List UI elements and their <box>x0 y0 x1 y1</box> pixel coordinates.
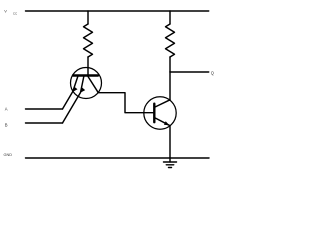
ground symbol bar 3 <box>169 167 172 169</box>
resistor R1 <box>84 24 93 57</box>
ground symbol stub <box>169 158 171 162</box>
ground symbol bar 1 <box>164 161 177 163</box>
svg-text:B: B <box>5 123 8 128</box>
transistor Q1 emitter 2 (input B) <box>63 77 84 124</box>
transistor Q2 emitter arrow <box>164 121 170 125</box>
wire R2 to output node <box>169 57 171 72</box>
transistor Q1 collector leg <box>88 77 98 93</box>
wire output branch <box>170 71 209 73</box>
transistor Q1 emitter arrow 2 <box>80 88 85 93</box>
wire GND bottom rail <box>26 157 210 159</box>
wire R1 to Q1 base <box>87 57 89 76</box>
wire Q1 collector to Q2 base <box>98 93 153 113</box>
svg-text:CC: CC <box>13 11 18 15</box>
svg-text:GND: GND <box>4 153 13 157</box>
wire Vcc to R1 <box>87 11 89 24</box>
transistor Q1 base bar <box>73 74 98 76</box>
transistor Q1 emitter arrow 1 <box>73 87 78 92</box>
ground symbol bar 2 <box>166 164 173 166</box>
transistor Q1 emitter 1 (input A) <box>63 77 78 110</box>
wire Vcc to R2 <box>169 11 171 24</box>
svg-text:A: A <box>5 107 8 112</box>
transistor Q2 collector leg <box>154 100 170 108</box>
wire input B <box>26 122 63 124</box>
svg-text:V: V <box>4 9 7 14</box>
node output junction / wire to Q2 collector <box>169 72 171 100</box>
transistor Q2 emitter leg <box>154 118 169 126</box>
wire Vcc top rail <box>26 10 209 12</box>
transistor Q2 base bar <box>153 104 155 123</box>
wire input A <box>26 108 63 110</box>
transistor Q1 body <box>71 68 102 99</box>
resistor R2 <box>166 24 175 57</box>
wire Q2 emitter to GND <box>169 126 171 158</box>
transistor Q2 body <box>144 97 176 129</box>
svg-text:Q: Q <box>211 71 214 76</box>
